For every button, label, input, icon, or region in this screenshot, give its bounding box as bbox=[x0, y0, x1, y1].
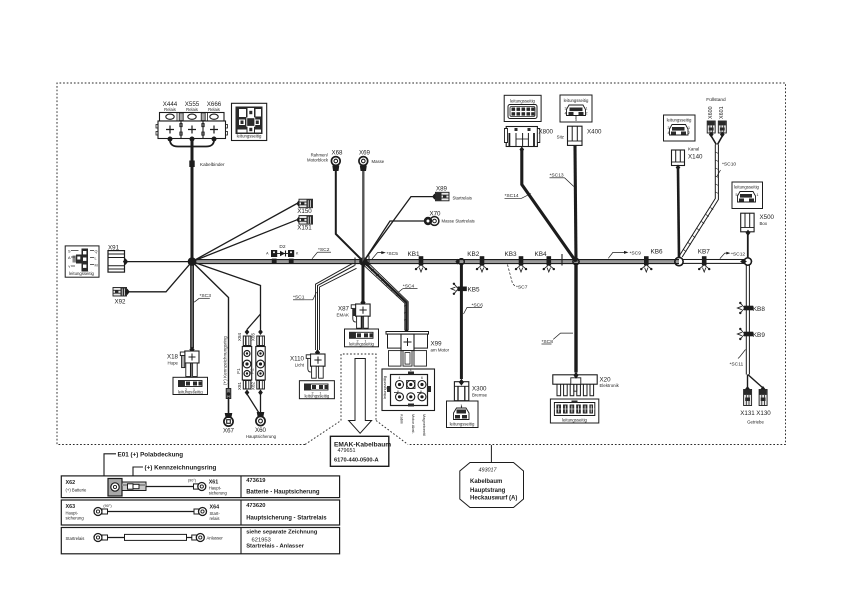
X67 ring terminal bbox=[225, 413, 233, 418]
svg-text:X64: X64 bbox=[210, 505, 220, 511]
leitungsseitig box (X400 face) bbox=[560, 95, 592, 122]
svg-text:1: 1 bbox=[757, 193, 759, 197]
svg-text:4: 4 bbox=[399, 376, 401, 380]
svg-text:KB7: KB7 bbox=[698, 249, 711, 256]
wire: X400 cable down to node bbox=[575, 147, 576, 262]
label SC5 with leader arrow bbox=[372, 253, 384, 259]
wire: X800 cable down to node bbox=[522, 149, 576, 262]
X500 connector (Box) bbox=[741, 213, 754, 232]
svg-text:leitungsseitig: leitungsseitig bbox=[349, 342, 374, 347]
svg-text:X82: X82 bbox=[251, 381, 256, 390]
X110 connector (Licht) bbox=[315, 349, 320, 356]
label SC9 with leader bbox=[608, 252, 626, 258]
svg-text:*SC10: *SC10 bbox=[722, 162, 736, 168]
label SC3 with leader bbox=[199, 297, 210, 299]
label SC4 with leader bbox=[403, 288, 418, 290]
label SC10 with leader bbox=[717, 170, 721, 177]
svg-text:sicherung: sicherung bbox=[66, 516, 85, 521]
svg-text:X601: X601 bbox=[719, 106, 725, 119]
svg-text:Motor Abst.: Motor Abst. bbox=[411, 414, 416, 434]
X61 end fitting bbox=[194, 483, 206, 491]
svg-text:X150: X150 bbox=[297, 208, 312, 215]
wire: X81 to X60 bbox=[247, 394, 259, 413]
svg-text:*SC1: *SC1 bbox=[293, 295, 305, 301]
svg-text:E01 (+) Polabdeckung: E01 (+) Polabdeckung bbox=[118, 452, 184, 459]
svg-text:L: L bbox=[95, 257, 97, 261]
svg-text:3: 3 bbox=[668, 126, 670, 130]
leader and label SC2 bbox=[312, 247, 331, 259]
svg-text:X131: X131 bbox=[740, 410, 755, 417]
label SC14 with leader bbox=[505, 197, 522, 199]
svg-text:Relais: Relais bbox=[208, 107, 220, 112]
X64 ring terminal icon bbox=[194, 508, 207, 516]
svg-text:KB9: KB9 bbox=[753, 332, 766, 339]
wire: relay trunk down to left hub bbox=[191, 139, 194, 262]
svg-text:*SC6: *SC6 bbox=[472, 302, 484, 308]
svg-text:X84: X84 bbox=[237, 332, 242, 341]
wire: feed split to F1 bbox=[247, 314, 261, 330]
X131 connector bbox=[745, 386, 750, 392]
X70 ring terminal bbox=[424, 217, 432, 225]
junction tick left of hub2 bbox=[354, 258, 356, 266]
leitungsseitig box (X91 face, pins S A Y / Q L M) bbox=[65, 246, 99, 277]
svg-text:Füllstand: Füllstand bbox=[706, 97, 726, 103]
node: ring junction at X20/X400 drop (top copy) bbox=[573, 259, 579, 265]
wire: X89 to center hub bbox=[364, 197, 434, 262]
svg-text:X400: X400 bbox=[587, 129, 602, 136]
octagon callout 493017 Kabelbaum Hauptstrang Heckauswurf (A) bbox=[460, 463, 524, 508]
leitungsseitig box (X87 face) bbox=[345, 329, 379, 347]
boundary cut diagonal left of EMAK label bbox=[305, 421, 341, 445]
svg-text:KB5: KB5 bbox=[468, 287, 481, 294]
svg-text:4: 4 bbox=[668, 131, 670, 135]
node: center star hub bbox=[359, 257, 368, 266]
svg-text:(+) Kennzeichnungsring: (+) Kennzeichnungsring bbox=[222, 336, 227, 385]
svg-text:(+) Kennzeichnungsring: (+) Kennzeichnungsring bbox=[145, 465, 217, 472]
svg-text:1: 1 bbox=[586, 107, 588, 111]
svg-text:*SC5: *SC5 bbox=[387, 251, 399, 257]
svg-text:X600: X600 bbox=[708, 106, 714, 119]
svg-text:4: 4 bbox=[565, 112, 567, 116]
label SC7 with dashed leader bbox=[508, 265, 516, 287]
branch KB5 on X300 lead bbox=[451, 283, 467, 295]
wire: X140 down to ring node bbox=[678, 169, 679, 258]
svg-text:leitungsseitig: leitungsseitig bbox=[178, 390, 203, 395]
X150 connector bbox=[296, 201, 300, 207]
svg-text:479651: 479651 bbox=[338, 448, 356, 454]
BOTTOM bbox=[61, 359, 523, 554]
wire: relay jumpers to trunk bbox=[170, 139, 192, 147]
svg-text:*SC4: *SC4 bbox=[403, 283, 415, 289]
label SC6 with leader bbox=[464, 308, 472, 315]
svg-text:Q: Q bbox=[95, 250, 98, 254]
node: left star hub bbox=[188, 257, 197, 266]
svg-text:493017: 493017 bbox=[479, 467, 498, 473]
wire harness boundary (dashed frame) bbox=[341, 354, 376, 421]
svg-text:M: M bbox=[95, 264, 98, 268]
node: ring junction at X500 drop bbox=[740, 259, 747, 264]
X87 connector (EMAK) bbox=[360, 299, 365, 306]
svg-text:leitungsseitig: leitungsseitig bbox=[450, 421, 475, 426]
svg-text:*SC3: *SC3 bbox=[200, 293, 212, 299]
svg-text:X81: X81 bbox=[237, 381, 242, 390]
wire: left hub to X150 bbox=[192, 204, 297, 262]
svg-text:leitungsseitig: leitungsseitig bbox=[734, 185, 759, 190]
svg-text:Anlasser: Anlasser bbox=[207, 536, 224, 541]
svg-text:Hupe: Hupe bbox=[168, 361, 179, 366]
wire: feed to F2 bbox=[260, 314, 262, 330]
svg-text:X70: X70 bbox=[429, 211, 441, 218]
wire: X92 to left hub bbox=[128, 262, 192, 292]
label SC13 with leader bbox=[550, 177, 565, 179]
svg-text:Startrelais: Startrelais bbox=[66, 536, 85, 541]
svg-text:Licht: Licht bbox=[295, 363, 305, 368]
X68 ring stud bbox=[331, 157, 340, 166]
svg-text:leitungsseitig: leitungsseitig bbox=[237, 134, 262, 139]
svg-text:leitungsseitig: leitungsseitig bbox=[382, 376, 387, 399]
wire: left hub to fuse feed bbox=[192, 262, 261, 314]
junction tick right of hub2 bbox=[368, 256, 370, 268]
svg-text:X89: X89 bbox=[436, 186, 448, 193]
boundary cut diagonal right of EMAK label bbox=[376, 421, 408, 445]
svg-text:*SC14: *SC14 bbox=[505, 193, 519, 199]
svg-text:siehe separate Zeichnung: siehe separate Zeichnung bbox=[246, 530, 318, 536]
svg-text:473620: 473620 bbox=[246, 503, 265, 509]
svg-text:X99: X99 bbox=[431, 341, 443, 348]
EMAK-Kabelbaum part number box bbox=[330, 436, 388, 466]
right ring terminal row3 bbox=[192, 534, 205, 542]
svg-text:Elektronik: Elektronik bbox=[600, 383, 620, 388]
X20 connector (Elektronik) bbox=[553, 375, 597, 396]
svg-text:KB6: KB6 bbox=[651, 249, 664, 256]
X18 connector (Hupe) bbox=[189, 346, 194, 353]
CENTER bbox=[290, 150, 475, 437]
leitungsseitig box (X18 face) bbox=[173, 377, 208, 394]
svg-text:KB4: KB4 bbox=[534, 251, 547, 258]
wire: X69 to center hub bbox=[362, 169, 365, 262]
wire: bus segment to X91 bbox=[125, 261, 192, 263]
cable sleeve row3 bbox=[108, 537, 125, 539]
svg-text:leitungsseitig: leitungsseitig bbox=[510, 99, 535, 104]
wire: to X130 bbox=[748, 375, 763, 389]
svg-text:sicherung: sicherung bbox=[209, 491, 228, 496]
svg-text:Kabin: Kabin bbox=[400, 414, 405, 424]
X800 connector bbox=[519, 146, 524, 152]
svg-text:X151: X151 bbox=[297, 225, 312, 232]
svg-text:X85: X85 bbox=[251, 332, 256, 341]
svg-text:EMAK: EMAK bbox=[337, 313, 350, 318]
svg-text:KB2: KB2 bbox=[467, 251, 480, 258]
svg-text:6: 6 bbox=[421, 376, 423, 380]
svg-text:2: 2 bbox=[688, 131, 690, 135]
node: ring junction at X300 drop (top copy) bbox=[459, 259, 465, 265]
svg-text:5: 5 bbox=[575, 118, 577, 122]
svg-text:3: 3 bbox=[565, 107, 567, 111]
svg-text:Batterie - Hauptsicherung: Batterie - Hauptsicherung bbox=[246, 490, 320, 496]
X140 connector (Kanal) bbox=[672, 150, 685, 166]
wire row2 bbox=[108, 511, 195, 513]
svg-text:X68: X68 bbox=[331, 150, 343, 157]
svg-text:D2: D2 bbox=[279, 244, 285, 250]
legend row 1 box: Batterie - Hauptsicherung bbox=[61, 476, 339, 498]
legend row 2 box: Hauptsicherung - Startrelais bbox=[61, 500, 339, 525]
svg-text:X62: X62 bbox=[66, 480, 76, 486]
branch KB7 bbox=[698, 256, 710, 272]
wire: to X131 bbox=[747, 375, 749, 389]
svg-text:*SC11: *SC11 bbox=[730, 362, 744, 368]
wire: center hub to X110 (hollow twin) bbox=[316, 263, 357, 350]
sleeve on X67 lead bbox=[226, 389, 231, 399]
svg-text:2: 2 bbox=[586, 112, 588, 116]
svg-text:1: 1 bbox=[460, 404, 462, 408]
wire: left hub to X151 bbox=[192, 220, 297, 262]
X151 connector bbox=[296, 217, 300, 223]
svg-text:X92: X92 bbox=[114, 299, 126, 306]
branch KB8 bbox=[737, 302, 753, 314]
wire: center hub to X99 (hatched cable) bbox=[362, 260, 408, 330]
X60 ring terminal bbox=[257, 412, 265, 417]
svg-text:relais: relais bbox=[210, 516, 220, 521]
X63 ring terminal icon bbox=[94, 508, 108, 516]
node: ring junction at X500 drop (top copy) bbox=[744, 258, 751, 265]
node: ring junction at X300 drop bbox=[455, 259, 459, 265]
LEFTCLUSTER bbox=[65, 101, 331, 306]
svg-text:Masse: Masse bbox=[372, 159, 385, 164]
svg-text:*SC7: *SC7 bbox=[516, 285, 528, 291]
node: ring junction at X140 (top copy) bbox=[675, 257, 683, 265]
svg-text:F2: F2 bbox=[249, 368, 254, 374]
svg-text:Hauptsicherung: Hauptsicherung bbox=[246, 434, 277, 439]
callout line to octagon bbox=[490, 445, 492, 463]
wire: X82 to X60 bbox=[260, 394, 262, 413]
X130 connector bbox=[761, 386, 766, 392]
svg-text:(90°): (90°) bbox=[103, 504, 112, 508]
svg-text:Sitz: Sitz bbox=[557, 135, 564, 140]
svg-text:Motorblock: Motorblock bbox=[307, 158, 329, 163]
svg-text:*SC2: *SC2 bbox=[318, 247, 330, 253]
wire: sleeve to X67 bbox=[228, 397, 230, 413]
wire: center hub down to X87 (thick) bbox=[362, 262, 365, 301]
battery clamp icon bbox=[108, 479, 146, 497]
svg-text:Startrelais - Anlasser: Startrelais - Anlasser bbox=[246, 544, 305, 550]
svg-text:Kanal: Kanal bbox=[688, 147, 699, 152]
wire: Fuellstand cable to ring node (hatched) bbox=[679, 145, 718, 259]
svg-text:Relais: Relais bbox=[186, 107, 198, 112]
wire: node down to X20 bbox=[574, 265, 577, 373]
wire: hollow twin down from ring to gearbox leads bbox=[745, 265, 747, 374]
svg-text:X18: X18 bbox=[167, 354, 179, 361]
svg-text:Heckauswurf (A): Heckauswurf (A) bbox=[470, 496, 517, 502]
relay socket block X444/X555/X666 bbox=[156, 113, 228, 139]
X69 ring stud bbox=[359, 157, 368, 166]
label SC1 with leader bbox=[293, 299, 304, 301]
svg-text:*SC13: *SC13 bbox=[550, 173, 564, 179]
svg-text:Kabelbinder: Kabelbinder bbox=[200, 162, 225, 167]
svg-text:(90°): (90°) bbox=[188, 479, 197, 483]
svg-text:Bremse: Bremse bbox=[472, 392, 488, 397]
svg-text:X69: X69 bbox=[359, 150, 371, 157]
X99 connector (am Motor) bbox=[404, 328, 409, 335]
X400 connector (Sitz) bbox=[573, 142, 578, 148]
svg-text:KB3: KB3 bbox=[504, 251, 517, 258]
svg-text:X63: X63 bbox=[66, 504, 76, 510]
svg-text:leitungsseitig: leitungsseitig bbox=[562, 417, 587, 422]
X91 connector bbox=[108, 251, 125, 273]
wire: X70 to center hub bbox=[364, 221, 427, 262]
wire: main harness bus left hub to right ring bbox=[192, 259, 679, 263]
branch KB3 bbox=[515, 256, 527, 272]
svg-text:X87: X87 bbox=[338, 306, 350, 313]
branch KB9 bbox=[737, 328, 753, 340]
wire row1 with marker ring bbox=[146, 486, 194, 488]
svg-text:am Motor: am Motor bbox=[431, 348, 450, 353]
branch KB1 bbox=[415, 256, 427, 272]
X92 connector bbox=[113, 288, 127, 297]
svg-text:1: 1 bbox=[688, 126, 690, 130]
svg-text:*SC12: *SC12 bbox=[731, 251, 745, 257]
svg-text:KB8: KB8 bbox=[753, 306, 766, 313]
svg-text:6170-440-0500-A: 6170-440-0500-A bbox=[334, 458, 379, 464]
label SC8 with leader bbox=[553, 333, 573, 339]
fuse F1 with X84/X81 bbox=[236, 329, 252, 396]
svg-text:X500: X500 bbox=[760, 214, 775, 221]
svg-text:Box: Box bbox=[760, 221, 768, 226]
svg-text:leitungsseitig: leitungsseitig bbox=[69, 271, 94, 276]
leitungsseitig box (X110 face) bbox=[299, 381, 334, 399]
big hollow arrow to EMAK label bbox=[349, 359, 372, 434]
branch KB6 bbox=[640, 256, 652, 272]
wire: hollow bus KB7 segment bbox=[683, 260, 744, 264]
svg-text:Magnetventil: Magnetventil bbox=[422, 414, 427, 436]
node: large ring junction at X140 bbox=[675, 257, 683, 265]
svg-text:5: 5 bbox=[736, 193, 738, 197]
legend row 3 box: Startrelais - Anlasser bbox=[61, 528, 339, 554]
svg-text:X130: X130 bbox=[756, 410, 771, 417]
branch KB2 bbox=[476, 256, 488, 272]
svg-text:X110: X110 bbox=[290, 356, 305, 363]
svg-text:1: 1 bbox=[410, 368, 412, 372]
label SC12 with leader arrow bbox=[720, 253, 728, 259]
left ring terminal row3 bbox=[94, 534, 108, 542]
label SC11 with leader bbox=[738, 350, 746, 359]
svg-text:X91: X91 bbox=[108, 245, 120, 252]
svg-text:leitungsseitig: leitungsseitig bbox=[564, 98, 589, 103]
MIDLEFT bbox=[167, 262, 277, 439]
svg-text:X67: X67 bbox=[223, 427, 235, 434]
svg-text:Getriebe: Getriebe bbox=[747, 420, 764, 425]
svg-text:Hauptsicherung - Startrelais: Hauptsicherung - Startrelais bbox=[246, 516, 327, 522]
svg-text:Hauptstrang: Hauptstrang bbox=[470, 488, 506, 494]
svg-text:X140: X140 bbox=[688, 154, 703, 161]
RIGHT bbox=[459, 97, 775, 425]
kabelbinder clip on trunk bbox=[189, 161, 194, 168]
svg-text:Masse Startrelais: Masse Startrelais bbox=[442, 219, 475, 224]
svg-text:Relais: Relais bbox=[164, 107, 176, 112]
leitungsseitig box (X20 face) bbox=[550, 399, 598, 423]
leitungsseitig box (relay connector face) bbox=[232, 103, 267, 140]
svg-text:*SC9: *SC9 bbox=[630, 251, 642, 257]
relay terminal dots bbox=[168, 137, 173, 142]
svg-text:F1: F1 bbox=[236, 368, 241, 374]
X89 connector bbox=[432, 194, 437, 200]
leitungsseitig box (X500 face) bbox=[732, 182, 763, 209]
svg-text:(+) Batterie: (+) Batterie bbox=[66, 488, 88, 493]
svg-text:leitungsseitig: leitungsseitig bbox=[667, 118, 692, 123]
leitungsseitig box (X300 face) bbox=[447, 401, 479, 428]
X300 connector (Bremse) bbox=[454, 382, 468, 401]
wire: X600/X601 Y-join bbox=[711, 136, 722, 145]
svg-text:KB1: KB1 bbox=[407, 251, 420, 258]
BUSRIGHT bbox=[407, 95, 619, 428]
node: ring junction at X20/X400 drop bbox=[573, 259, 579, 265]
wire: X500 down to ring bbox=[747, 234, 749, 258]
svg-text:473619: 473619 bbox=[246, 478, 266, 484]
svg-text:leitungsseitig: leitungsseitig bbox=[304, 393, 329, 398]
wire: X68 to center hub bbox=[336, 169, 364, 262]
wire: left hub to Kennzeichnungsring lead bbox=[192, 262, 229, 388]
svg-text:Startrelais: Startrelais bbox=[453, 196, 472, 201]
leitungsseitig box (X140 face) bbox=[664, 115, 696, 141]
wire: left hub down to X18 (thick) bbox=[191, 262, 193, 348]
svg-text:Kabelbaum: Kabelbaum bbox=[470, 479, 502, 485]
leitungsseitig box (X99 face, 6 sockets) bbox=[382, 369, 435, 411]
branch KB4 bbox=[543, 256, 555, 272]
diode D2 assembly on bus bbox=[266, 244, 299, 264]
wire: ring node down to X300 bbox=[460, 265, 463, 380]
leitungsseitig box (X800 face) bbox=[504, 95, 541, 121]
svg-text:X800: X800 bbox=[539, 129, 554, 136]
fuse F2 with X85/X82 bbox=[249, 329, 265, 396]
